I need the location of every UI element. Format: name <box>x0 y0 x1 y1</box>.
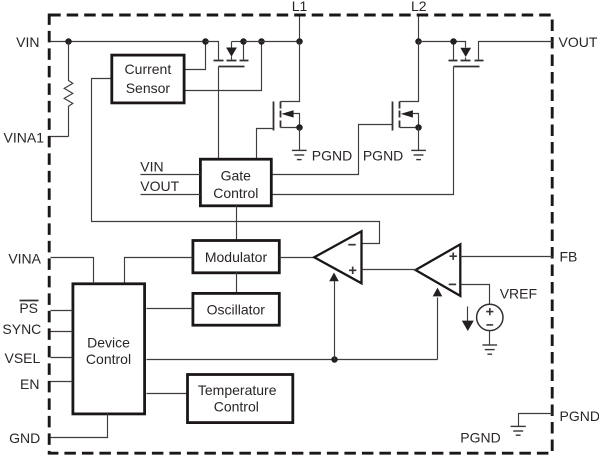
wire L2 pin <box>418 17 420 42</box>
svg-text:L2: L2 <box>411 0 427 14</box>
wire Q1 gate to Gate Control <box>218 67 220 159</box>
wire Gate Control to Modulator <box>236 206 238 241</box>
wire error amp output to comparator + input <box>362 269 417 271</box>
node switch node tap <box>258 38 265 45</box>
ground (VREF) <box>482 345 497 354</box>
op-amp U2 error amplifier <box>416 244 461 296</box>
transistor Q1 high-side buck MOSFET <box>206 42 249 67</box>
wire VINA1 <box>51 136 69 138</box>
svg-text:SYNC: SYNC <box>2 321 41 337</box>
svg-text:L1: L1 <box>292 0 308 14</box>
transistor Q2 low-side buck MOSFET <box>274 42 300 131</box>
wire Device Control enable to amplifiers <box>147 359 438 361</box>
wire Q2 source to ground <box>299 128 301 151</box>
svg-text:VINA: VINA <box>8 250 41 266</box>
wire SYNC <box>51 331 73 333</box>
node VIN rail / current sensor tap <box>202 38 209 45</box>
wire Q3 gate to Gate Control <box>273 125 393 175</box>
IC boundary (dashed) <box>49 15 552 453</box>
svg-text:PS: PS <box>19 300 38 316</box>
wire Modulator output to comparator <box>280 257 315 259</box>
wire Q3 source to ground <box>418 128 420 151</box>
ground PGND (substrate) <box>511 426 526 435</box>
arrow enable to error amplifier <box>433 288 443 360</box>
wire error amp inverting input to VREF <box>461 285 490 305</box>
svg-text:Control: Control <box>86 351 131 367</box>
svg-text:Control: Control <box>213 185 258 201</box>
arrow soft start ramp <box>462 307 474 332</box>
wire current sense signal to comparator <box>92 79 380 244</box>
svg-text:Control: Control <box>214 399 259 415</box>
block Modulator <box>193 241 279 273</box>
ground PGND (Q2 source) <box>292 150 307 159</box>
svg-text:VINA1: VINA1 <box>4 129 45 145</box>
wire EN <box>51 381 73 383</box>
svg-text:PGND: PGND <box>312 147 352 163</box>
wire VSEL <box>51 357 73 359</box>
svg-text:EN: EN <box>20 376 39 392</box>
wire Q2 gate to Gate Control <box>257 129 274 159</box>
voltage source VREF <box>477 304 503 330</box>
wire L1 pin <box>299 17 301 42</box>
node L1 <box>296 38 303 45</box>
wire Device Control to Temperature Control <box>147 393 188 395</box>
svg-text:PGND: PGND <box>460 429 500 445</box>
svg-text:PGND: PGND <box>363 147 403 163</box>
svg-text:VOUT: VOUT <box>140 178 179 194</box>
svg-text:VSEL: VSEL <box>4 350 40 366</box>
node Q1 drain tap <box>240 38 247 45</box>
wire PGND pin to substrate ground <box>519 414 553 427</box>
svg-text:Gate: Gate <box>221 168 252 184</box>
wire current sensor lower output to switch node <box>186 42 262 91</box>
wire VIN rail <box>51 41 206 43</box>
transistor Q4 high-side boost MOSFET <box>449 42 553 67</box>
node Q2 source <box>296 124 303 131</box>
wire GND to Device Control <box>51 414 108 438</box>
svg-text:VIN: VIN <box>16 34 39 50</box>
wire L2 rail <box>419 41 454 43</box>
transistor Q3 low-side boost MOSFET <box>393 42 419 131</box>
svg-text:GND: GND <box>9 430 40 446</box>
svg-text:Modulator: Modulator <box>205 249 268 265</box>
wire Q4 gate to Gate Control <box>273 67 454 195</box>
wire VIN sense into Gate Control <box>141 174 201 176</box>
node Q4 source tap <box>450 38 457 45</box>
wire current sensor top output to VIN rail <box>186 42 206 70</box>
block Device Control <box>73 284 145 414</box>
wire FB to error amp <box>461 256 553 258</box>
wire VOUT sense into Gate Control <box>141 194 201 196</box>
wire rail to L1 node <box>244 41 300 43</box>
wire Modulator to Device Control <box>125 258 193 283</box>
svg-text:Oscillator: Oscillator <box>207 302 266 318</box>
block Gate Control <box>200 159 271 206</box>
svg-text:FB: FB <box>560 248 578 264</box>
wire Device Control to Oscillator <box>147 308 193 310</box>
svg-text:Sensor: Sensor <box>126 80 171 96</box>
svg-text:Current: Current <box>125 61 172 77</box>
svg-text:VREF: VREF <box>500 286 537 302</box>
diode Q4 body diode <box>454 42 472 60</box>
node L2 <box>415 38 422 45</box>
wire VINA to Device Control <box>51 258 94 284</box>
svg-text:PGND: PGND <box>560 408 599 424</box>
svg-text:Temperature: Temperature <box>198 382 277 398</box>
diode Q1 body diode <box>226 42 243 60</box>
svg-text:VOUT: VOUT <box>559 34 598 50</box>
wire VREF to ground <box>489 331 491 345</box>
node VIN / resistor junction <box>65 38 72 45</box>
op-amp U1 PWM comparator <box>314 231 361 283</box>
svg-text:Device: Device <box>87 334 130 350</box>
node Q3 source <box>415 124 422 131</box>
block Current Sensor <box>112 55 184 103</box>
wire Modulator to Oscillator <box>236 273 238 294</box>
block Temperature Control <box>188 375 293 423</box>
svg-text:VIN: VIN <box>140 158 163 174</box>
wire PS <box>51 310 73 312</box>
resistor R1 (VIN to VINA1) <box>64 42 73 137</box>
arrow enable to comparator <box>329 273 339 360</box>
node enable branch <box>331 356 338 363</box>
block Oscillator <box>193 293 279 325</box>
ground PGND (Q3 source) <box>411 150 426 159</box>
